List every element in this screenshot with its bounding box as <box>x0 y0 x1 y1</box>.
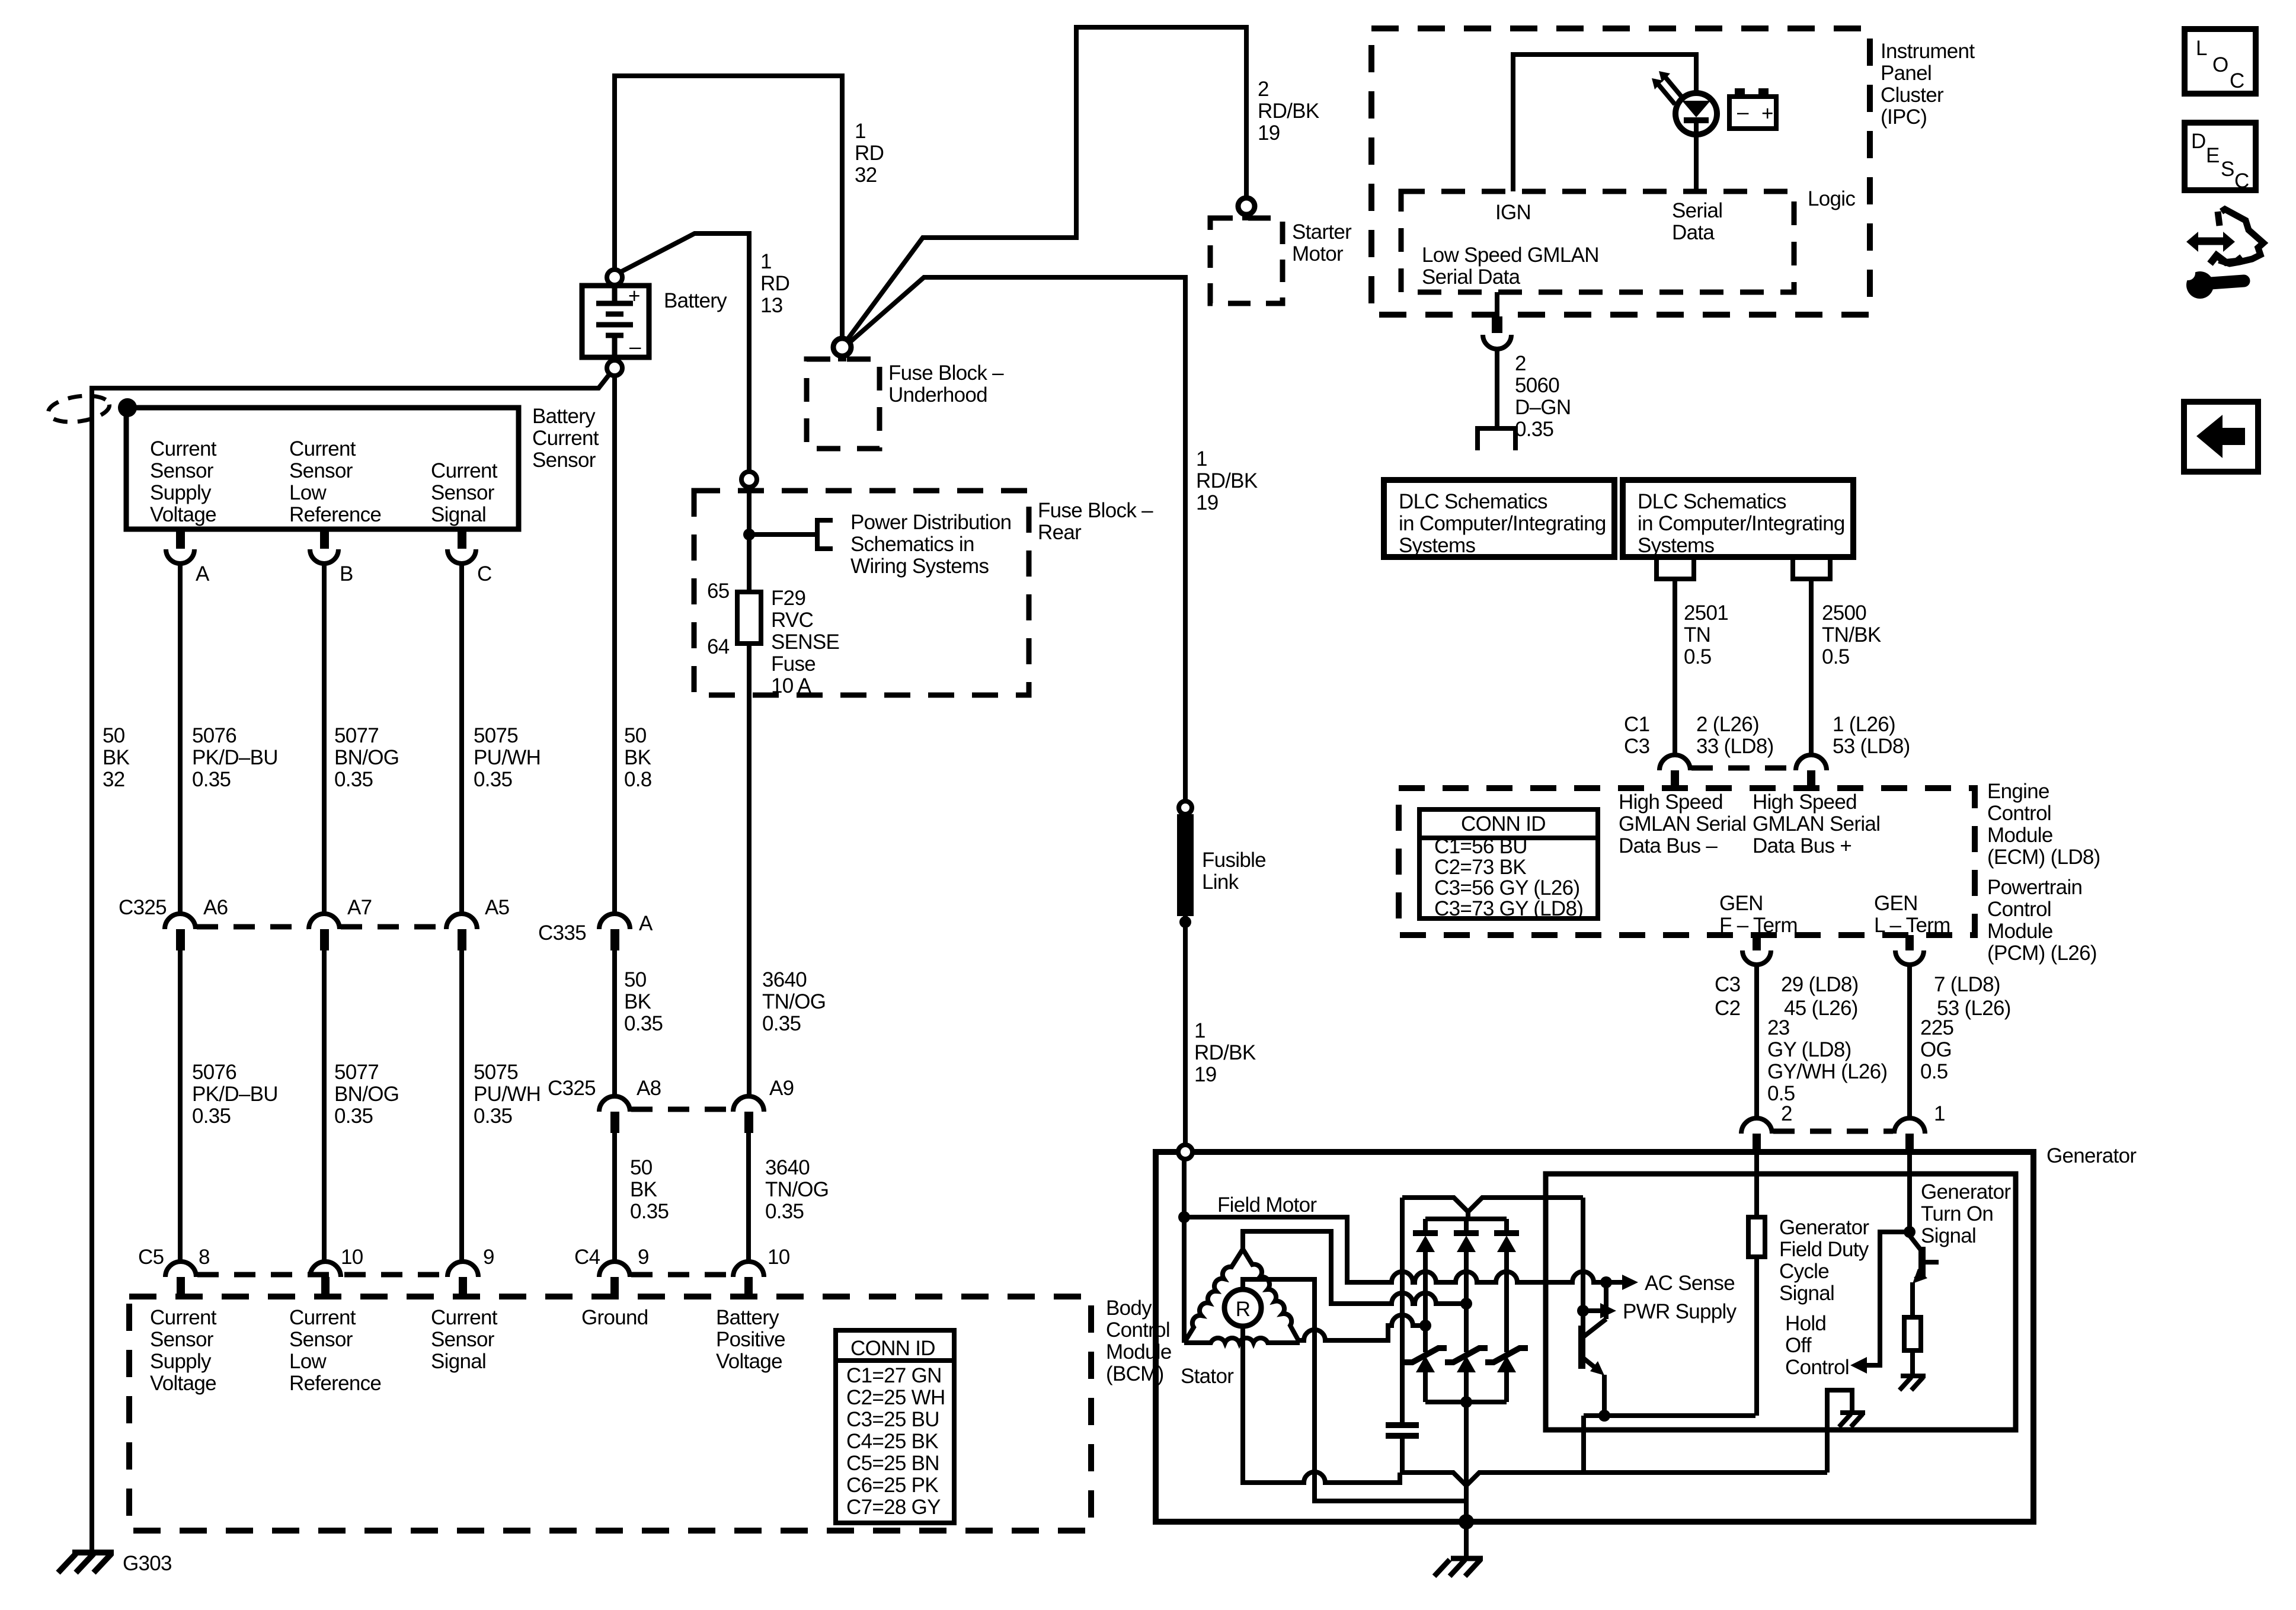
svg-text:0.35: 0.35 <box>630 1200 669 1223</box>
wire: GEN L term down <box>1907 965 1912 1118</box>
wire: column 2 down to ground node <box>1464 1402 1469 1522</box>
svg-text:PWR Supply: PWR Supply <box>1623 1300 1737 1323</box>
svg-text:Sensor: Sensor <box>289 459 353 482</box>
bracket out of DLC box 2 (right) <box>1793 560 1830 579</box>
svg-text:C1=27 GN: C1=27 GN <box>846 1364 942 1387</box>
fuse block rear dashed box <box>694 491 1029 695</box>
svg-text:8: 8 <box>199 1246 210 1269</box>
wire B lower <box>322 950 327 1263</box>
pin B of sensor <box>320 529 329 549</box>
logic dashed box <box>1401 191 1794 292</box>
connector dashes C4 <box>631 1272 732 1278</box>
svg-text:BN/OG: BN/OG <box>334 1083 399 1106</box>
fuse block underhood terminal circle <box>833 338 851 356</box>
svg-text:BN/OG: BN/OG <box>334 746 399 769</box>
wire: emitter rail to bottom bus <box>1581 1416 1586 1473</box>
pin A6 <box>176 929 185 950</box>
generator box <box>1156 1152 2033 1522</box>
terminal cup ECM out L <box>1895 950 1924 965</box>
wire A upper <box>178 563 183 914</box>
svg-text:Current: Current <box>431 1306 498 1329</box>
wire: GEN F term down <box>1754 965 1759 1118</box>
svg-text:Control: Control <box>1785 1356 1849 1379</box>
wire: fusible link to generator <box>1183 916 1188 1145</box>
arrow PWR Supply <box>1583 1308 1600 1313</box>
bracket into DLC box 1 <box>1478 428 1515 450</box>
svg-text:Fuse: Fuse <box>771 652 816 676</box>
arrow hold off control <box>1850 1357 1867 1374</box>
wire: C335 to A8 <box>612 950 617 1096</box>
IPC battery icon terminals <box>1735 88 1745 97</box>
svg-text:PK/D–BU: PK/D–BU <box>192 746 278 769</box>
connector dashes C325 <box>197 924 445 930</box>
svg-text:0.35: 0.35 <box>192 768 231 791</box>
DLC schematics box 2 <box>1623 480 1853 557</box>
svg-text:Sensor: Sensor <box>431 481 495 504</box>
svg-text:CONN ID: CONN ID <box>850 1337 935 1360</box>
svg-text:C7=28 GY: C7=28 GY <box>846 1496 941 1519</box>
fusible link top circle <box>1179 801 1192 814</box>
svg-text:L – Term: L – Term <box>1874 914 1950 937</box>
svg-text:in Computer/Integrating: in Computer/Integrating <box>1638 512 1845 535</box>
stator delta right winding <box>1243 1249 1300 1343</box>
wire: field driver emitter to rail <box>1602 1375 1607 1416</box>
svg-text:RD: RD <box>855 142 884 165</box>
svg-text:DLC Schematics: DLC Schematics <box>1638 490 1786 513</box>
arrow AC Sense <box>1606 1280 1622 1285</box>
svg-text:A8: A8 <box>637 1077 661 1100</box>
svg-text:65: 65 <box>707 580 730 603</box>
svg-text:C1=56 BU: C1=56 BU <box>1434 835 1527 858</box>
svg-text:2: 2 <box>1515 352 1526 375</box>
pin BCM 8 <box>177 1277 185 1297</box>
svg-text:0.5: 0.5 <box>1920 1060 1948 1083</box>
svg-text:High Speed: High Speed <box>1753 790 1857 814</box>
svg-text:33 (LD8): 33 (LD8) <box>1696 735 1774 758</box>
svg-text:TN/OG: TN/OG <box>765 1178 829 1201</box>
connector cup ECM in left <box>1659 755 1690 770</box>
pin IPC serial data out <box>1495 292 1499 316</box>
svg-text:0.5: 0.5 <box>1822 645 1850 668</box>
svg-text:Generator: Generator <box>1779 1216 1869 1239</box>
svg-text:19: 19 <box>1194 1063 1217 1086</box>
indicator LED circle <box>1675 93 1717 135</box>
svg-text:A9: A9 <box>769 1077 794 1100</box>
svg-text:Starter: Starter <box>1292 220 1352 244</box>
svg-text:Rear: Rear <box>1038 521 1082 544</box>
svg-text:Reference: Reference <box>289 503 381 526</box>
svg-text:Signal: Signal <box>1921 1224 1976 1247</box>
svg-text:C5=25 BN: C5=25 BN <box>846 1452 939 1475</box>
connector dashes A8-A9 <box>631 1107 732 1112</box>
svg-text:50: 50 <box>624 724 647 747</box>
svg-text:Supply: Supply <box>150 1350 212 1373</box>
svg-text:29 (LD8): 29 (LD8) <box>1781 973 1859 996</box>
connector cup generator F <box>1741 1118 1772 1134</box>
bracket out of DLC box 2 (left) <box>1657 560 1694 579</box>
svg-text:5077: 5077 <box>334 1061 379 1084</box>
svg-text:Current: Current <box>289 1306 356 1329</box>
wire: rear fuse feed inside box <box>747 487 752 592</box>
svg-text:Voltage: Voltage <box>716 1350 782 1373</box>
junction dot AC sense <box>1600 1276 1612 1288</box>
junction dot generator ground <box>1459 1514 1474 1529</box>
svg-text:Motor: Motor <box>1292 242 1344 265</box>
wire: serial data to DLC bracket <box>1495 349 1499 428</box>
fuse block underhood dashed box <box>807 359 880 449</box>
DLC schematics box 1 <box>1384 480 1614 557</box>
svg-text:Sensor: Sensor <box>532 449 596 472</box>
svg-text:GEN: GEN <box>1719 892 1763 915</box>
svg-text:0.35: 0.35 <box>474 768 512 791</box>
svg-text:1: 1 <box>1194 1019 1205 1042</box>
svg-text:Schematics in: Schematics in <box>850 533 974 556</box>
ECM CONN ID table <box>1419 809 1598 918</box>
terminal cup B <box>310 549 338 564</box>
svg-text:C2: C2 <box>1715 997 1740 1020</box>
svg-text:Voltage: Voltage <box>150 503 216 526</box>
svg-text:Underhood: Underhood <box>888 383 987 406</box>
svg-text:D: D <box>2191 130 2206 153</box>
svg-text:5075: 5075 <box>474 724 518 747</box>
svg-text:TN: TN <box>1684 623 1710 646</box>
rotor circle R <box>1224 1289 1261 1326</box>
svg-text:0.35: 0.35 <box>334 1105 373 1128</box>
wire C upper <box>459 563 464 914</box>
svg-text:2 (L26): 2 (L26) <box>1696 713 1759 736</box>
svg-text:Sensor: Sensor <box>150 1328 214 1351</box>
svg-text:C3=25 BU: C3=25 BU <box>846 1408 939 1431</box>
svg-text:Systems: Systems <box>1399 534 1475 557</box>
svg-text:Sensor: Sensor <box>431 1328 495 1351</box>
svg-text:50: 50 <box>624 968 647 991</box>
svg-text:BK: BK <box>103 746 130 769</box>
wire: underhood to starter feed (upper diagonal) <box>847 27 1246 340</box>
svg-text:Body: Body <box>1106 1297 1152 1320</box>
starter motor dashed box <box>1210 218 1283 303</box>
svg-text:3640: 3640 <box>765 1156 810 1179</box>
wire: A8 to BCM ground pin <box>612 1133 617 1263</box>
battery positive terminal circle <box>607 270 622 285</box>
svg-text:Hold: Hold <box>1785 1312 1826 1335</box>
battery current sensor box <box>126 408 519 529</box>
svg-text:Panel: Panel <box>1881 62 1932 85</box>
pin BCM C4-10 <box>744 1277 753 1297</box>
svg-text:5075: 5075 <box>474 1061 518 1084</box>
wire: battery positive up and to 1 RD 32 drop <box>615 76 842 338</box>
wire: underhood to generator feed (lower diagonal) <box>848 277 1185 801</box>
svg-text:C335: C335 <box>538 921 586 945</box>
svg-text:Off: Off <box>1785 1334 1812 1357</box>
svg-text:F29: F29 <box>771 587 805 610</box>
svg-text:5077: 5077 <box>334 724 379 747</box>
pin generator L <box>1905 1134 1914 1152</box>
wire: A9 to BCM battery positive pin <box>746 1133 751 1263</box>
svg-text:R: R <box>1236 1298 1251 1321</box>
svg-text:TN/OG: TN/OG <box>762 990 826 1013</box>
fusible link bottom dot <box>1179 916 1191 928</box>
ground below generator <box>1434 1558 1483 1576</box>
svg-text:2501: 2501 <box>1684 601 1728 625</box>
pin A of sensor <box>176 529 185 549</box>
bridge top bus with dip <box>1402 1198 1583 1212</box>
svg-text:0.35: 0.35 <box>765 1200 804 1223</box>
svg-text:GY/WH (L26): GY/WH (L26) <box>1767 1060 1887 1083</box>
svg-text:1: 1 <box>855 120 866 143</box>
fuse block rear terminal circle <box>741 472 757 487</box>
icon wrench and arrows <box>2195 238 2226 245</box>
svg-text:Systems: Systems <box>1638 534 1714 557</box>
svg-text:23: 23 <box>1767 1016 1790 1039</box>
diode column 2 <box>1464 1219 1469 1402</box>
wire: battery negative down to C335 <box>612 376 617 914</box>
svg-text:Instrument: Instrument <box>1881 40 1975 63</box>
svg-text:Low Speed GMLAN: Low Speed GMLAN <box>1422 244 1599 267</box>
connector cup BCM 8 <box>165 1262 196 1277</box>
svg-text:Generator: Generator <box>2046 1144 2137 1167</box>
svg-text:0.5: 0.5 <box>1684 645 1712 668</box>
svg-text:Signal: Signal <box>1779 1282 1834 1305</box>
svg-text:GMLAN Serial: GMLAN Serial <box>1619 812 1746 836</box>
starter motor terminal circle <box>1238 198 1255 215</box>
svg-text:in Computer/Integrating: in Computer/Integrating <box>1399 512 1606 535</box>
diode column 3 <box>1504 1219 1509 1402</box>
svg-text:Sensor: Sensor <box>150 459 214 482</box>
junction dot phase on column 1 <box>1419 1320 1431 1331</box>
junction dot turn on <box>1904 1226 1916 1238</box>
generator feed terminal circle <box>1178 1145 1192 1159</box>
svg-text:Current: Current <box>431 459 498 482</box>
svg-text:C325: C325 <box>548 1077 596 1100</box>
svg-text:9: 9 <box>483 1246 494 1269</box>
wire B upper <box>322 563 327 914</box>
svg-text:Module: Module <box>1987 824 2053 847</box>
resistor turn on <box>1904 1317 1921 1350</box>
svg-text:BK: BK <box>630 1178 657 1201</box>
bridge top bus center stub <box>1466 1212 1470 1219</box>
svg-text:0.35: 0.35 <box>624 1012 663 1035</box>
connector cup A7 <box>309 914 340 929</box>
connector cup BCM 9 <box>447 1262 478 1277</box>
svg-text:Reference: Reference <box>289 1372 381 1395</box>
LED emission arrows <box>1657 76 1682 104</box>
wire: B+ bus to PWR transistor <box>1581 1198 1585 1326</box>
connector cup A9 <box>733 1096 764 1112</box>
svg-text:C4: C4 <box>574 1246 600 1269</box>
capacitor bottom leg <box>1400 1436 1405 1473</box>
svg-text:High Speed: High Speed <box>1619 790 1723 814</box>
svg-text:Serial Data: Serial Data <box>1422 265 1521 289</box>
svg-text:Current: Current <box>150 1306 217 1329</box>
svg-text:225: 225 <box>1920 1016 1953 1039</box>
svg-text:–: – <box>1737 101 1749 124</box>
svg-text:G303: G303 <box>123 1552 172 1575</box>
svg-text:Fusible: Fusible <box>1202 849 1266 872</box>
svg-text:10: 10 <box>341 1246 363 1269</box>
svg-text:CONN ID: CONN ID <box>1461 812 1546 836</box>
svg-text:L: L <box>2196 37 2207 60</box>
turn on transistor <box>1910 1235 1922 1251</box>
svg-text:Cycle: Cycle <box>1779 1260 1829 1283</box>
svg-text:(ECM) (LD8): (ECM) (LD8) <box>1987 846 2100 869</box>
svg-text:OG: OG <box>1920 1038 1952 1061</box>
svg-text:GY (LD8): GY (LD8) <box>1767 1038 1851 1061</box>
IPC dashed box <box>1371 28 1870 315</box>
svg-text:Data Bus +: Data Bus + <box>1753 834 1851 857</box>
wire: neutral to internal ground <box>1827 1390 1852 1473</box>
pin ECM out L <box>1905 935 1914 950</box>
svg-text:0.8: 0.8 <box>624 768 652 791</box>
connector cup C335-A <box>599 914 630 929</box>
pin BCM C4-9 <box>610 1277 619 1297</box>
bridge column header <box>1425 1217 1507 1221</box>
capacitor leg from top bus <box>1400 1198 1405 1425</box>
svg-text:10 A: 10 A <box>771 674 812 697</box>
wire: L term into regulator <box>1907 1152 1912 1232</box>
connector dashes generator <box>1773 1129 1893 1134</box>
svg-text:RD: RD <box>760 272 789 295</box>
wire: stator right phase to diode column 1 <box>1300 1315 1425 1340</box>
ground G303 <box>58 1553 114 1573</box>
svg-text:A5: A5 <box>485 896 509 919</box>
svg-text:Battery: Battery <box>532 405 596 428</box>
fusible link body <box>1177 814 1194 916</box>
terminal cup A <box>166 549 194 564</box>
LED cathode bar <box>1684 117 1709 123</box>
svg-text:0.35: 0.35 <box>334 768 373 791</box>
svg-text:0.35: 0.35 <box>474 1105 512 1128</box>
wire: resistor to ground <box>1910 1350 1915 1375</box>
svg-text:Cluster: Cluster <box>1881 84 1944 107</box>
svg-text:50: 50 <box>630 1156 653 1179</box>
svg-text:Ground: Ground <box>581 1306 648 1329</box>
terminal cup C <box>447 549 476 564</box>
wire: turn on emitter to resistor <box>1910 1282 1915 1317</box>
power distribution bracket <box>817 520 833 549</box>
svg-text:Serial: Serial <box>1672 199 1722 222</box>
pin ECM in right <box>1807 770 1815 788</box>
svg-text:5076: 5076 <box>192 724 236 747</box>
svg-text:19: 19 <box>1258 121 1280 145</box>
svg-text:Supply: Supply <box>150 481 212 504</box>
bottom merge bus with dip <box>1402 1473 1827 1486</box>
splice ellipse (twisted lead) <box>47 392 111 425</box>
svg-text:Field Duty: Field Duty <box>1779 1238 1869 1261</box>
wire: tap to power distribution bracket <box>749 532 817 537</box>
svg-text:0.35: 0.35 <box>192 1105 231 1128</box>
wire A lower <box>178 950 183 1263</box>
wire: hold off control loop <box>1866 1232 1910 1365</box>
svg-text:Powertrain: Powertrain <box>1987 876 2082 899</box>
svg-text:BK: BK <box>624 746 651 769</box>
wire: 2501 TN <box>1673 579 1677 755</box>
svg-text:Current: Current <box>289 437 356 460</box>
stator delta bottom winding <box>1184 1338 1300 1343</box>
svg-text:C: C <box>477 562 492 585</box>
svg-text:C1: C1 <box>1624 713 1649 736</box>
svg-text:IGN: IGN <box>1495 201 1531 224</box>
svg-text:64: 64 <box>707 635 730 658</box>
svg-text:C4=25 BK: C4=25 BK <box>846 1430 938 1453</box>
bridge bottom bus <box>1425 1400 1507 1404</box>
svg-text:B: B <box>340 562 353 585</box>
svg-text:Battery: Battery <box>716 1306 779 1329</box>
svg-text:RD/BK: RD/BK <box>1196 469 1258 492</box>
svg-text:C325: C325 <box>119 896 167 919</box>
svg-text:1: 1 <box>1934 1102 1945 1125</box>
svg-text:A: A <box>639 912 653 935</box>
wire: rotor top phase to bottom merge <box>1243 1279 1466 1501</box>
wire: rotor bottom to capacitor leg <box>1243 1326 1400 1483</box>
connector dashes C5 <box>197 1272 446 1278</box>
svg-text:Module: Module <box>1106 1340 1172 1363</box>
terminal cup IPC out <box>1483 335 1511 349</box>
pin ECM in left <box>1671 770 1679 788</box>
svg-text:C5: C5 <box>138 1246 164 1269</box>
svg-text:Module: Module <box>1987 920 2053 943</box>
wire: emitter rail <box>1584 1413 1755 1418</box>
svg-text:Current: Current <box>150 437 217 460</box>
svg-text:PK/D–BU: PK/D–BU <box>192 1083 278 1106</box>
svg-text:Generator: Generator <box>1921 1180 2011 1204</box>
svg-text:Signal: Signal <box>431 1350 486 1373</box>
svg-text:2: 2 <box>1781 1102 1792 1125</box>
connector cup A5 <box>446 914 477 929</box>
svg-text:10: 10 <box>768 1246 790 1269</box>
svg-text:13: 13 <box>760 294 783 317</box>
svg-text:19: 19 <box>1196 491 1219 514</box>
wire C lower <box>459 950 464 1263</box>
svg-text:RD/BK: RD/BK <box>1194 1041 1256 1064</box>
svg-text:1 (L26): 1 (L26) <box>1833 713 1895 736</box>
connector cup BCM 10 <box>310 1262 341 1277</box>
svg-text:PU/WH: PU/WH <box>474 746 541 769</box>
battery negative terminal circle <box>607 360 622 376</box>
wire: resistor to emitter rail <box>1754 1257 1759 1416</box>
svg-text:A: A <box>196 562 210 585</box>
svg-text:C3=73 GY (LD8): C3=73 GY (LD8) <box>1434 897 1583 920</box>
svg-text:Current: Current <box>532 427 599 450</box>
svg-text:(PCM) (L26): (PCM) (L26) <box>1987 942 2097 965</box>
connector cup ECM in right <box>1796 755 1827 770</box>
svg-text:D–GN: D–GN <box>1515 396 1571 419</box>
wire: F term into regulator <box>1754 1152 1759 1217</box>
ground internal regulator <box>1839 1413 1865 1427</box>
connector cup A6 <box>165 914 196 929</box>
svg-text:Stator: Stator <box>1181 1365 1234 1388</box>
svg-text:PU/WH: PU/WH <box>474 1083 541 1106</box>
svg-text:Engine: Engine <box>1987 780 2049 803</box>
svg-text:O: O <box>2212 53 2228 76</box>
stator delta left winding <box>1184 1249 1243 1343</box>
svg-text:0.35: 0.35 <box>1515 418 1553 441</box>
wire: battery positive diagonal to 1 RD 13 drop <box>621 233 749 472</box>
svg-text:BK: BK <box>624 990 651 1013</box>
wire: IGN to LED <box>1513 55 1696 191</box>
pin A8 <box>610 1112 619 1133</box>
BCM dashed box <box>129 1297 1091 1531</box>
svg-text:1: 1 <box>1196 447 1207 470</box>
wire: generator ground drop <box>1464 1522 1469 1557</box>
pin A9 <box>744 1112 753 1133</box>
battery cell plates <box>596 286 633 357</box>
wire: fuse output down to A9 <box>747 644 752 1096</box>
pin A5 <box>458 929 466 950</box>
svg-text:Voltage: Voltage <box>150 1372 216 1395</box>
svg-text:A6: A6 <box>203 896 228 919</box>
svg-text:5060: 5060 <box>1515 374 1559 397</box>
connector dashes ECM in <box>1691 766 1795 771</box>
